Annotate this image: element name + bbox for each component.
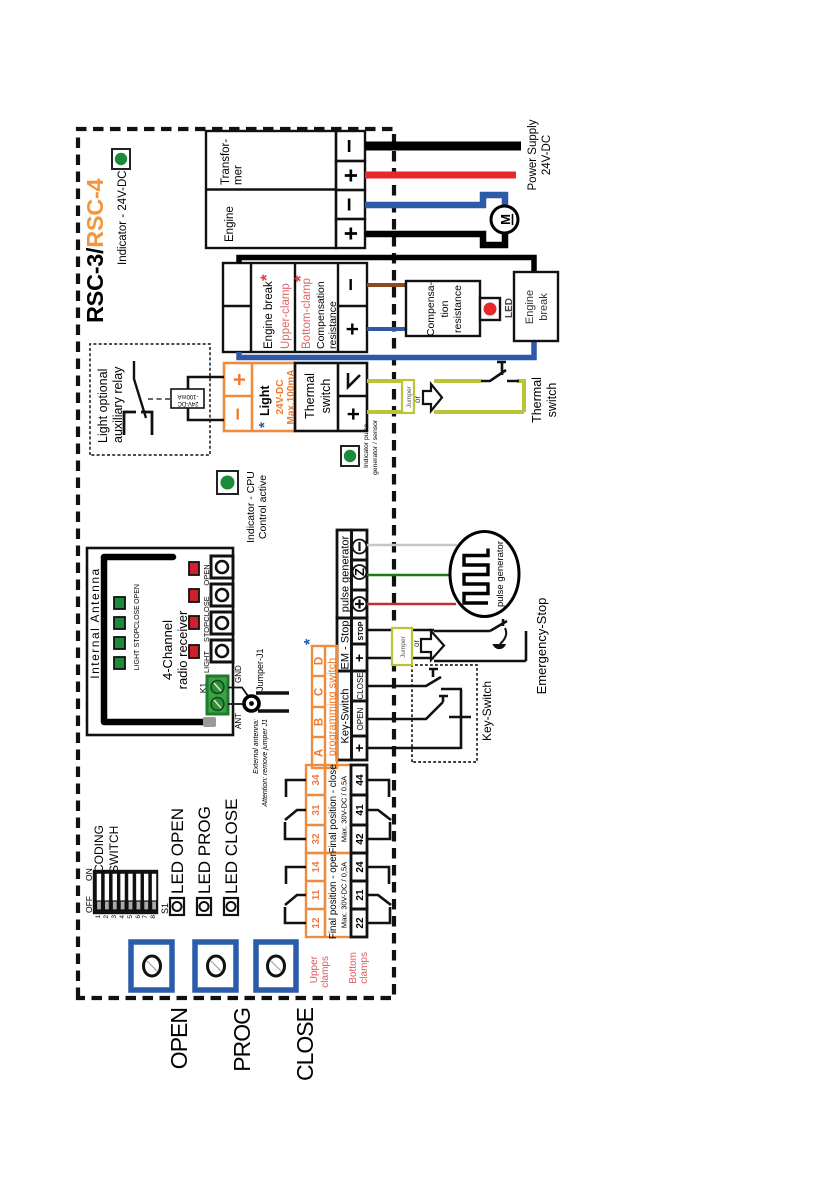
svg-text:Indicator pulse: Indicator pulse: [363, 424, 370, 468]
svg-text:tion: tion: [439, 300, 451, 317]
svg-text:Engine: Engine: [524, 290, 536, 324]
svg-text:CLOSE: CLOSE: [356, 672, 365, 699]
svg-text:*: *: [257, 274, 276, 281]
svg-text:Jumper-J1: Jumper-J1: [255, 648, 265, 691]
svg-text:Z: Z: [352, 568, 367, 576]
svg-text:31: 31: [311, 804, 322, 816]
svg-text:LED PROG: LED PROG: [195, 806, 214, 894]
svg-text:+: +: [338, 168, 365, 182]
svg-text:External antenna:: External antenna:: [253, 719, 260, 774]
svg-text:Compensa-: Compensa-: [425, 281, 437, 336]
svg-text:Transfor-: Transfor-: [220, 139, 232, 185]
svg-text:Bottom: Bottom: [348, 952, 359, 984]
svg-text:PROG: PROG: [229, 1008, 255, 1072]
svg-text:LED OPEN: LED OPEN: [168, 808, 187, 894]
svg-text:LIGHT: LIGHT: [134, 649, 141, 670]
svg-text:34: 34: [311, 774, 322, 786]
svg-text:3: 3: [111, 915, 118, 919]
svg-text:EM - Stop: EM - Stop: [340, 621, 352, 670]
svg-text:12: 12: [311, 917, 322, 929]
svg-text:Emergency-Stop: Emergency-Stop: [534, 598, 549, 695]
svg-text:Control active: Control active: [257, 475, 269, 539]
svg-text:*: *: [256, 422, 273, 428]
svg-text:resistance: resistance: [327, 301, 339, 349]
svg-text:14: 14: [311, 861, 322, 873]
svg-text:B: B: [314, 718, 326, 726]
svg-text:−: −: [336, 139, 363, 153]
svg-text:pulse generator: pulse generator: [495, 541, 506, 607]
svg-text:OPEN: OPEN: [166, 1008, 192, 1069]
svg-text:break: break: [538, 293, 550, 321]
svg-text:+: +: [351, 744, 367, 752]
svg-text:M: M: [498, 214, 513, 225]
svg-text:Internal Antenna: Internal Antenna: [88, 567, 102, 678]
svg-text:OFF: OFF: [84, 896, 94, 913]
svg-text:ANT: ANT: [234, 713, 243, 729]
svg-text:generator / sensor: generator / sensor: [372, 419, 379, 475]
svg-text:Upper: Upper: [309, 955, 320, 983]
svg-text:*: *: [302, 638, 319, 645]
svg-text:24V-DC: 24V-DC: [275, 379, 286, 414]
svg-text:Key-Switch: Key-Switch: [340, 688, 352, 743]
svg-text:programming switch: programming switch: [327, 658, 339, 756]
svg-text:2: 2: [103, 915, 110, 919]
svg-text:C: C: [314, 688, 326, 696]
svg-text:Power Supply: Power Supply: [527, 119, 539, 190]
svg-text:Max. 30V-DC / 0,5A: Max. 30V-DC / 0,5A: [340, 862, 349, 928]
svg-text:Upper-clamp: Upper-clamp: [280, 283, 292, 349]
svg-text:Light optional: Light optional: [96, 369, 110, 443]
svg-text:switch: switch: [545, 383, 559, 418]
svg-text:5: 5: [127, 915, 134, 919]
svg-text:-100mA: -100mA: [177, 393, 198, 399]
svg-text:Indicator - CPU: Indicator - CPU: [245, 471, 257, 543]
svg-text:44: 44: [355, 774, 366, 786]
svg-text:24: 24: [355, 861, 366, 873]
svg-text:Jumper: Jumper: [400, 635, 407, 658]
svg-text:STOP: STOP: [134, 628, 141, 647]
svg-text:STOP: STOP: [358, 621, 365, 640]
svg-text:Thermal: Thermal: [530, 377, 544, 423]
svg-text:6: 6: [135, 915, 142, 919]
svg-text:11: 11: [311, 889, 322, 900]
svg-text:CLOSE: CLOSE: [134, 605, 141, 629]
svg-text:Light: Light: [258, 385, 272, 416]
svg-text:Final position - open: Final position - open: [328, 851, 339, 939]
svg-text:Max.100mA: Max.100mA: [286, 369, 297, 424]
svg-text:24V-DC: 24V-DC: [541, 135, 553, 175]
svg-text:Max. 30V-DC / 0.5A: Max. 30V-DC / 0.5A: [340, 776, 349, 842]
svg-text:Final position - close: Final position - close: [328, 764, 339, 854]
svg-text:ON: ON: [84, 868, 94, 881]
svg-text:Compensation: Compensation: [315, 281, 327, 349]
svg-text:Engine: Engine: [224, 206, 236, 242]
svg-text:24V-DC: 24V-DC: [177, 400, 199, 406]
svg-text:Indicator - 24V-DC: Indicator - 24V-DC: [117, 170, 129, 265]
svg-text:clamps: clamps: [359, 952, 370, 984]
svg-text:−: −: [336, 197, 363, 211]
svg-text:SWITCH: SWITCH: [107, 826, 121, 873]
svg-text:+: +: [227, 373, 252, 386]
svg-text:or: or: [413, 396, 422, 403]
svg-text:7: 7: [142, 915, 149, 919]
svg-text:+: +: [341, 408, 366, 421]
svg-text:+: +: [338, 226, 365, 240]
svg-text:4: 4: [119, 915, 126, 919]
svg-text:41: 41: [355, 804, 366, 816]
svg-text:−: −: [338, 278, 363, 291]
svg-text:Bottom-clamp: Bottom-clamp: [301, 278, 313, 349]
svg-text:CLOSE: CLOSE: [292, 1007, 318, 1081]
svg-text:S1: S1: [160, 903, 170, 914]
svg-text:4-Channel: 4-Channel: [160, 620, 175, 680]
svg-text:or: or: [412, 640, 421, 647]
svg-text:LED CLOSE: LED CLOSE: [222, 799, 241, 894]
svg-text:42: 42: [355, 833, 366, 845]
svg-text:+: +: [351, 654, 367, 662]
svg-text:resistance: resistance: [452, 285, 464, 333]
svg-text:CODING: CODING: [92, 825, 106, 873]
svg-text:Engine break: Engine break: [263, 281, 275, 349]
svg-text:GND: GND: [234, 665, 243, 683]
svg-text:radio receiver: radio receiver: [175, 610, 190, 689]
svg-text:*: *: [291, 275, 310, 282]
svg-text:clamps: clamps: [320, 956, 331, 988]
svg-text:22: 22: [355, 917, 366, 929]
svg-text:D: D: [314, 657, 326, 665]
svg-text:mer: mer: [233, 165, 245, 185]
svg-text:switch: switch: [319, 379, 333, 414]
svg-text:pulse generator: pulse generator: [340, 535, 352, 612]
svg-text:1: 1: [95, 915, 102, 919]
svg-text:Thermal: Thermal: [303, 373, 317, 419]
svg-text:Jumper: Jumper: [406, 385, 413, 408]
svg-text:21: 21: [355, 889, 366, 901]
svg-text:A: A: [314, 749, 326, 757]
svg-text:+: +: [340, 323, 365, 336]
svg-text:Key-Switch: Key-Switch: [480, 681, 494, 741]
svg-text:RSC-3/RSC-4: RSC-3/RSC-4: [82, 179, 108, 323]
svg-text:OPEN: OPEN: [134, 584, 141, 604]
svg-text:8: 8: [150, 915, 157, 919]
svg-text:Attention: remove jumper J1: Attention: remove jumper J1: [262, 719, 269, 808]
svg-text:32: 32: [311, 833, 322, 845]
svg-text:−: −: [225, 408, 250, 421]
svg-text:OPEN: OPEN: [356, 707, 365, 730]
